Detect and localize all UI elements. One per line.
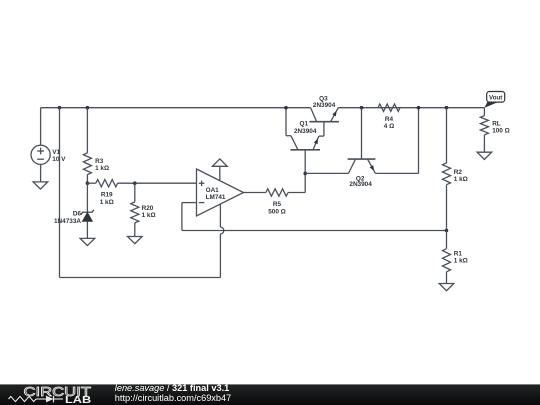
ground below V1 [33,182,48,189]
ground below R1 [439,284,454,291]
resistor R2 [443,108,451,231]
svg-text:500 Ω: 500 Ω [268,208,286,215]
ground below R20 [128,237,143,244]
svg-text:2N3904: 2N3904 [294,128,317,135]
resistor R3 [83,108,91,184]
svg-text:R1: R1 [454,250,463,257]
wire top rail left segment [41,107,311,109]
node dot R19/R20/op-amp+ [133,181,137,185]
svg-text:1N4733A: 1N4733A [54,218,81,225]
wire V- supply column [59,108,61,278]
svg-text:http://circuitlab.com/c69xb47: http://circuitlab.com/c69xb47 [115,393,231,403]
svg-text:Q1: Q1 [300,121,309,128]
zener diode D6 [81,183,94,238]
node dot rail/R2 [445,106,449,110]
svg-text:Vout: Vout [489,95,502,102]
svg-text:100 Ω: 100 Ω [492,128,510,135]
svg-text:R3: R3 [95,158,104,165]
svg-text:R19: R19 [101,192,113,199]
node dot rail/Q2 base [360,106,364,110]
transistor Q3 2N3904 [309,108,339,122]
node dot rail/R3 [86,106,90,110]
svg-text:RL: RL [492,120,501,127]
op-amp VCC supply symbol [212,159,227,181]
voltage source V1 [31,108,50,182]
resistor R4 [378,104,400,111]
svg-text:LAB: LAB [65,395,91,405]
node dot rail/Q1 collector [284,106,288,110]
resistor RL [480,108,488,153]
svg-text:R4: R4 [385,116,394,123]
node dot R3/R19/D6 [86,181,90,185]
transistor Q1 2N3904 [286,108,324,150]
svg-text:2N3904: 2N3904 [313,102,336,109]
CircuitLab logo resistor-diode glyph [9,396,37,401]
wire R5 to Q1 base [304,150,306,193]
svg-text:R2: R2 [454,169,463,176]
wire op-amp V- riser with hop over feedback wire [220,204,223,277]
svg-text:D6: D6 [73,210,82,217]
svg-text:1 kΩ: 1 kΩ [95,165,109,172]
node dot top rail / V- column [58,106,62,110]
node dot rail/Q2 emitter return [417,106,421,110]
ground below RL [477,152,492,159]
svg-text:1 kΩ: 1 kΩ [100,199,114,206]
node dot R2/R1/feedback [445,229,449,233]
resistor R20 [131,183,139,236]
svg-text:lene.savage / 321 final v3.1: lene.savage / 321 final v3.1 [115,383,229,393]
resistor R19 [87,180,196,187]
wire op-amp inverting input to feedback net [182,203,447,231]
node dot Q1 base / Q2 collector [303,172,307,176]
resistor R5 [244,189,306,196]
svg-text:LM741: LM741 [206,194,226,201]
svg-text:R5: R5 [273,201,282,208]
wire top rail right segment [338,107,484,109]
svg-text:2N3904: 2N3904 [349,181,372,188]
op-amp U1 OA1 LM741 [197,169,244,216]
node Vout flag [484,92,504,108]
resistor R1 [443,231,451,284]
wire Q2 collector to Q1 base node [305,172,348,174]
transistor Q2 2N3904 [348,108,419,174]
svg-text:1 kΩ: 1 kΩ [454,258,468,265]
ground below D6 [80,238,95,245]
wire bottom rail [60,277,221,279]
svg-text:OA1: OA1 [206,187,220,194]
svg-text:4 Ω: 4 Ω [384,123,394,130]
svg-text:1 kΩ: 1 kΩ [454,176,468,183]
svg-text:R20: R20 [142,205,154,212]
svg-text:1 kΩ: 1 kΩ [142,212,156,219]
